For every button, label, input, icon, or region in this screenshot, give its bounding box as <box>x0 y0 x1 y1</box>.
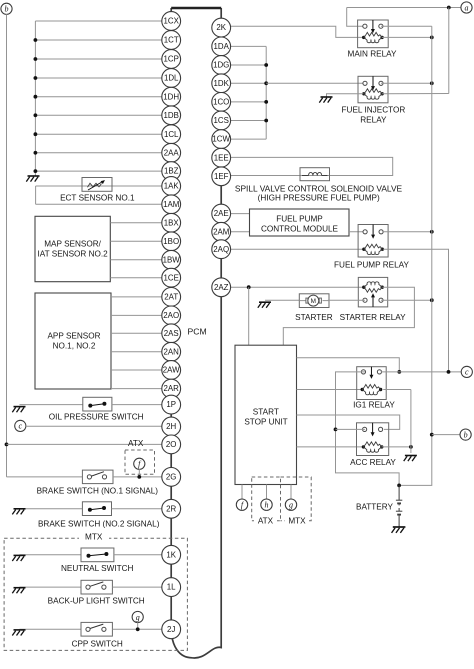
svg-text:1P: 1P <box>166 400 176 409</box>
junction dot battery positive <box>397 484 401 488</box>
wire ground to CPP switch <box>20 628 82 630</box>
svg-text:STARTER: STARTER <box>295 313 333 322</box>
main power bus vertical <box>399 26 432 485</box>
svg-text:1AM: 1AM <box>163 200 179 209</box>
svg-text:1CT: 1CT <box>164 36 179 45</box>
svg-text:g: g <box>289 501 293 510</box>
PCM pin 1EE <box>212 148 231 167</box>
wire APP sensor to pin 2AS <box>111 332 162 334</box>
junction dot ground bus / 1DL <box>34 76 38 80</box>
PCM pin 1CS <box>212 111 231 130</box>
svg-text:(HIGH PRESSURE FUEL PUMP): (HIGH PRESSURE FUEL PUMP) <box>258 194 380 203</box>
svg-text:APP SENSOR: APP SENSOR <box>47 331 100 340</box>
wire collector bus to fuel injector relay contact <box>266 82 365 84</box>
wire APP sensor to pin 2AW <box>111 369 162 371</box>
wire starter relay coil to start stop unit <box>283 287 414 345</box>
wire pin 2AA to ground bus <box>35 152 162 154</box>
wire pin 1DG to collector bus <box>230 64 266 66</box>
PCM pin 1DA <box>212 37 231 56</box>
MTX dashed box (unit) <box>281 477 312 521</box>
thermistor symbol (ECT sensor) <box>82 178 112 192</box>
svg-text:ATX: ATX <box>258 517 274 526</box>
svg-text:2AN: 2AN <box>164 347 180 356</box>
PCM pin 2AA <box>162 143 181 162</box>
svg-text:SPILL VALVE CONTROL SOLENOID V: SPILL VALVE CONTROL SOLENOID VALVE <box>235 183 403 193</box>
svg-text:2G: 2G <box>166 473 177 482</box>
svg-text:2H: 2H <box>166 422 176 431</box>
wire pin 1DK to collector bus <box>230 82 266 84</box>
wire start stop unit to c-junction <box>297 358 400 372</box>
junction dot ground bus / 1DH <box>34 95 38 99</box>
wire pin 1DH to ground bus <box>35 96 162 98</box>
svg-text:2AT: 2AT <box>164 293 178 302</box>
wire APP sensor to pin 2AR <box>111 388 162 390</box>
wire ECT sensor to pin 1AM <box>36 203 162 205</box>
PCM pin 1CL <box>162 125 181 144</box>
svg-text:2AW: 2AW <box>163 366 180 375</box>
svg-text:g: g <box>136 613 140 622</box>
svg-text:2R: 2R <box>166 504 176 513</box>
wire MAP/IAT sensor to pin 1BW <box>110 259 162 261</box>
wire fuel pump relay contact to bus <box>382 231 432 233</box>
relay K5 IG1 RELAY <box>357 367 387 400</box>
svg-text:FUEL INJECTOR: FUEL INJECTOR <box>342 105 406 114</box>
PCM pin 2O <box>162 435 181 454</box>
wire pin 1CT to ground bus <box>35 39 162 41</box>
wire b-line <box>432 434 460 436</box>
svg-text:b: b <box>5 5 9 14</box>
wire pin 1AK to ECT sensor <box>36 185 162 187</box>
oil pressure switch S1 (closed) <box>83 397 112 411</box>
ground bus (left) <box>34 21 36 176</box>
svg-text:1BX: 1BX <box>164 218 180 227</box>
svg-text:START: START <box>253 408 279 417</box>
svg-text:BRAKE SWITCH (NO.1 SIGNAL): BRAKE SWITCH (NO.1 SIGNAL) <box>37 487 159 496</box>
svg-text:1DB: 1DB <box>164 111 179 120</box>
junction dot ground bus / 1CP <box>34 57 38 61</box>
svg-text:MTX: MTX <box>288 517 306 526</box>
CPP switch (open) <box>81 622 112 636</box>
wire pin 1CS to collector bus <box>230 120 266 122</box>
PCM connector right vertical wall <box>192 8 221 658</box>
svg-text:2J: 2J <box>167 625 175 634</box>
wire oil pressure switch to pin 1P <box>112 404 162 406</box>
ground G3 (brake switch NO.2) <box>12 509 25 515</box>
ground G10 (battery) <box>392 527 406 533</box>
wire pin 2AE to fuel pump control module <box>230 213 249 215</box>
svg-text:1CW: 1CW <box>212 135 230 144</box>
PCM pin 1EF <box>212 167 231 186</box>
svg-text:BACK-UP LIGHT SWITCH: BACK-UP LIGHT SWITCH <box>48 596 145 605</box>
wire pin 2K to main relay coil <box>230 26 363 37</box>
PCM pin 1DK <box>212 74 231 93</box>
junction dot a-line <box>447 6 451 10</box>
ground G8 (starter) <box>258 302 271 308</box>
svg-text:OIL PRESSURE SWITCH: OIL PRESSURE SWITCH <box>49 412 144 421</box>
battery BAT1 <box>398 485 400 500</box>
svg-text:2AQ: 2AQ <box>213 245 229 254</box>
PCM pin 2J <box>162 620 181 639</box>
wire start stop unit to ACC relay coil <box>297 446 364 448</box>
PCM pin 1CW <box>212 130 231 149</box>
junction dot collector bus/1CS <box>264 119 268 123</box>
PCM pin 1CX <box>162 12 181 31</box>
svg-text:c: c <box>465 368 469 377</box>
wire ground to fuel injector relay coil <box>327 94 364 97</box>
svg-text:2AM: 2AM <box>213 227 229 236</box>
wire MAP/IAT sensor to pin 1CE <box>110 277 162 279</box>
PCM pin 2AZ <box>212 278 231 297</box>
svg-text:h: h <box>265 501 269 510</box>
wire fuel injector relay contact to bus <box>381 82 432 84</box>
PCM pin 2H <box>162 417 181 436</box>
junction dot battery-feed/ACC-contact <box>334 428 338 432</box>
PCM pin 2AE <box>212 204 231 223</box>
ground G9 (IG1/ACC relay coils) <box>404 456 417 462</box>
PCM pin 1P <box>162 395 181 414</box>
wire ground to starter <box>265 299 300 301</box>
wire APP sensor to pin 2AO <box>111 314 162 316</box>
PCM pin 2AT <box>162 288 181 307</box>
PCM pin 1K <box>162 545 181 564</box>
svg-text:2AE: 2AE <box>214 209 229 218</box>
PCM pin 1CE <box>162 268 181 287</box>
svg-text:1CX: 1CX <box>164 17 180 26</box>
wire pin 1CO to collector bus <box>230 101 266 103</box>
wire terminal-c to pin 2H <box>26 425 162 427</box>
svg-text:1BZ: 1BZ <box>164 167 179 176</box>
PCM connector left vertical wall <box>171 8 192 658</box>
label MTX patch <box>79 532 109 541</box>
relay K2 FUEL INJECTOR RELAY <box>358 76 388 103</box>
wire a-net vertical to fuel injector coil <box>448 8 450 94</box>
wire to terminal f (unit) <box>241 485 243 500</box>
wire back-up light switch to pin 1L <box>112 586 163 588</box>
wire APP sensor to pin 2AT <box>111 296 162 298</box>
PCM pin 1CP <box>162 50 181 69</box>
wire pin 1EE loop <box>230 157 392 175</box>
PCM pin 2AW <box>162 361 181 380</box>
PCM pin 1BZ <box>162 162 181 181</box>
junction dot bus/fuel-injector-contact <box>430 81 434 85</box>
wire pin 1CP to ground bus <box>35 58 162 60</box>
wire a-line down to main relay contact <box>347 8 365 27</box>
svg-text:ACC RELAY: ACC RELAY <box>350 458 396 467</box>
pin collector bus <box>265 46 267 139</box>
svg-text:MAP SENSOR/: MAP SENSOR/ <box>44 240 101 249</box>
svg-text:2AA: 2AA <box>164 148 180 157</box>
svg-text:1AK: 1AK <box>164 182 180 191</box>
PCM pin 1CO <box>212 93 231 112</box>
PCM pin 2AQ <box>212 240 231 259</box>
PCM pin 2AO <box>162 306 181 325</box>
PCM pin 1BW <box>162 250 181 269</box>
brake switch NO.2 (closed) <box>82 502 111 516</box>
ground G7 (fuel injector relay) <box>319 97 332 103</box>
START STOP UNIT box <box>235 345 297 484</box>
relay ground rail vertical <box>410 390 412 454</box>
wire IG1 coil to ground rail <box>383 389 411 391</box>
MTX dashed box <box>4 538 187 650</box>
svg-text:IAT SENSOR NO.2: IAT SENSOR NO.2 <box>37 250 108 259</box>
svg-text:1BW: 1BW <box>163 255 181 264</box>
terminal a (top-right) <box>461 2 472 13</box>
terminal c (right) <box>461 366 472 377</box>
junction dot f-tap <box>137 475 141 479</box>
wire fuel pump control module to fuel pump relay contact <box>349 231 366 233</box>
wire IG1 left contact to battery feed <box>336 372 400 486</box>
PCM pin 2AR <box>162 379 181 398</box>
wire ACC coil to ground rail <box>382 446 411 448</box>
svg-text:2AS: 2AS <box>164 329 179 338</box>
wire main relay coil to bus <box>382 36 432 38</box>
junction dot ground bus / 1BZ <box>34 169 38 173</box>
wire a-line horizontal <box>347 7 461 9</box>
wire pin 1DL to ground bus <box>35 77 162 79</box>
junction dot ground bus / 2AA <box>34 151 38 155</box>
svg-text:1CL: 1CL <box>164 130 179 139</box>
PCM pin 1DB <box>162 106 181 125</box>
wire ground to neutral switch <box>20 554 82 556</box>
ground G2 (oil pressure switch) <box>12 407 25 413</box>
MAP sensor / IAT sensor NO.2 box <box>35 216 110 281</box>
label ATX patch (unit) <box>254 516 277 525</box>
svg-text:2O: 2O <box>166 440 177 449</box>
wire pin 1DB to ground bus <box>35 114 162 116</box>
junction dot bus/main-relay-coil <box>430 36 434 40</box>
wire MAP/IAT sensor to pin 1BX <box>110 222 162 224</box>
back-up light switch (open) <box>81 580 112 594</box>
svg-text:1BO: 1BO <box>163 237 179 246</box>
svg-text:b: b <box>464 430 468 439</box>
wire terminal-g to 2J net <box>137 622 139 629</box>
relay K4 STARTER RELAY <box>358 277 387 307</box>
svg-text:IG1 RELAY: IG1 RELAY <box>353 401 395 410</box>
svg-text:1DK: 1DK <box>214 79 230 88</box>
wire pin 1BZ to ground bus <box>35 170 162 172</box>
svg-text:2AR: 2AR <box>164 384 180 393</box>
ground G4 (neutral switch) <box>12 555 25 561</box>
wire pin 1CL to ground bus <box>35 133 162 135</box>
PCM pin 2G <box>162 468 181 487</box>
junction dot ground-rail/ACC-coil <box>409 445 413 449</box>
ECT sensor left side <box>35 186 37 204</box>
PCM pin 1DL <box>162 69 181 88</box>
wire ground to oil pressure switch <box>20 404 83 406</box>
ground G6 (CPP switch) <box>12 630 25 636</box>
wire pin 1DA to collector bus <box>230 45 266 47</box>
ground G1 (sensor ground bus) <box>26 176 39 182</box>
wire start stop unit to IG1 relay coil <box>297 389 364 391</box>
terminal f (start stop unit) <box>236 499 247 510</box>
svg-text:1EF: 1EF <box>214 172 229 181</box>
junction dot b-wire / pin 2O tap <box>5 443 9 447</box>
svg-text:1DH: 1DH <box>163 92 179 101</box>
svg-text:STOP UNIT: STOP UNIT <box>244 418 287 427</box>
junction dot bus/starter-relay-contact <box>430 298 434 302</box>
junction dot collector bus/1CO <box>264 100 268 104</box>
wire b-line to brake switch NO.1 <box>7 476 83 478</box>
neutral switch (closed) <box>81 548 114 562</box>
wire pin 2AQ to fuel pump relay coil <box>230 248 363 250</box>
svg-text:STARTER RELAY: STARTER RELAY <box>340 313 407 322</box>
PCM pin 2R <box>162 499 181 518</box>
wire to terminal g (unit) <box>290 485 292 500</box>
wire CPP switch to pin 2J <box>112 628 162 630</box>
wire terminal-b vertical <box>6 14 8 477</box>
junction dot collector bus/1DG <box>264 63 268 67</box>
junction dot bus/b-line <box>430 433 434 437</box>
wire start stop unit to ACC relay contact <box>297 415 400 429</box>
brake switch NO.1 (open) <box>82 470 113 484</box>
terminal g (start stop unit) <box>285 499 296 510</box>
terminal b (right) <box>460 429 471 440</box>
svg-text:RELAY: RELAY <box>360 115 387 124</box>
svg-text:1CO: 1CO <box>213 98 229 107</box>
svg-text:ECT SENSOR NO.1: ECT SENSOR NO.1 <box>60 193 135 202</box>
PCM pin 1L <box>162 578 181 597</box>
wire 2AZ tap down to start stop unit <box>248 287 250 345</box>
starter motor M1 <box>299 294 329 308</box>
wire battery feed to ACC left contact <box>336 428 365 430</box>
fuel pump control module box <box>250 209 350 236</box>
ground G5 (back-up light switch) <box>12 588 25 594</box>
PCM pin 1DH <box>162 87 181 106</box>
svg-text:1EE: 1EE <box>214 153 229 162</box>
wire ground to back-up light switch <box>20 586 82 588</box>
wire APP sensor to pin 2AN <box>111 351 162 353</box>
junction dot collector bus/1DK <box>264 81 268 85</box>
wire pin 2O to b-line <box>7 443 163 445</box>
svg-text:NO.1, NO.2: NO.1, NO.2 <box>53 341 96 350</box>
wire pin 1CX to ground bus <box>35 20 162 22</box>
wire brake switch NO.2 to pin 2R <box>112 508 163 510</box>
svg-text:1DL: 1DL <box>164 74 179 83</box>
terminal h (start stop unit) <box>261 499 272 510</box>
svg-text:CONTROL MODULE: CONTROL MODULE <box>261 224 339 233</box>
terminal b (top-left) <box>1 3 12 14</box>
svg-text:1DG: 1DG <box>213 61 229 70</box>
svg-text:FUEL PUMP: FUEL PUMP <box>276 214 323 223</box>
wire starter relay contact to bus <box>381 299 432 301</box>
svg-text:BRAKE SWITCH (NO.2 SIGNAL): BRAKE SWITCH (NO.2 SIGNAL) <box>38 520 160 529</box>
wire to terminal h (unit) <box>266 485 268 500</box>
PCM pin 1BX <box>162 213 181 232</box>
wire pin 2AZ to starter relay coil <box>230 286 363 288</box>
svg-text:PCM: PCM <box>188 326 207 336</box>
wire brake switch NO.1 to pin 2G <box>113 476 162 478</box>
junction dot ground bus / 1CT <box>34 38 38 42</box>
svg-text:BATTERY: BATTERY <box>356 503 394 512</box>
svg-text:M: M <box>311 298 316 305</box>
PCM pin 2AM <box>212 222 231 241</box>
relay K3 FUEL PUMP RELAY <box>358 225 388 258</box>
svg-text:1L: 1L <box>167 583 176 592</box>
wire ground to brake switch NO.2 <box>20 508 83 510</box>
wire IG1 contact to c terminal <box>381 371 462 373</box>
svg-text:c: c <box>19 422 23 431</box>
APP sensor NO.1, NO.2 box <box>35 293 111 389</box>
svg-text:1CS: 1CS <box>214 116 229 125</box>
PCM pin 1AK <box>162 177 181 196</box>
svg-text:NEUTRAL SWITCH: NEUTRAL SWITCH <box>61 564 134 573</box>
svg-text:2AZ: 2AZ <box>214 283 229 292</box>
junction dot g-tap <box>136 627 140 631</box>
relay K1 MAIN RELAY <box>358 20 389 48</box>
svg-text:MTX: MTX <box>85 533 103 542</box>
svg-text:ATX: ATX <box>128 439 144 448</box>
spill valve control solenoid valve symbol <box>300 168 330 181</box>
svg-text:1DA: 1DA <box>214 42 230 51</box>
wire terminal-f to 2G net <box>138 469 140 477</box>
junction dot c-line/start-stop <box>397 370 401 374</box>
terminal g (above CPP wire) <box>132 611 143 622</box>
wire starter to starter relay contact <box>328 299 365 301</box>
PCM pin 2K <box>212 18 231 37</box>
svg-text:MAIN RELAY: MAIN RELAY <box>348 49 398 58</box>
svg-text:1K: 1K <box>166 550 176 559</box>
junction dot bus/fuel-pump-contact <box>430 230 434 234</box>
PCM pin 1DG <box>212 56 231 75</box>
svg-text:a: a <box>465 3 469 12</box>
ATX dashed box (f terminal) <box>125 450 155 474</box>
junction dot ground bus / 1CL <box>34 132 38 136</box>
wire MAP/IAT sensor to pin 1BO <box>110 240 162 242</box>
junction dot c-line/fuel-pump-coil-net <box>447 370 451 374</box>
wire fuel injector relay coil to a-net <box>382 93 449 95</box>
PCM pin 1BO <box>162 232 181 251</box>
svg-text:1CP: 1CP <box>164 55 179 64</box>
wire main relay contact to bus <box>381 25 432 27</box>
PCM pin 2AS <box>162 324 181 343</box>
svg-text:FUEL PUMP RELAY: FUEL PUMP RELAY <box>334 260 409 269</box>
terminal c (left) <box>15 420 26 431</box>
svg-text:CPP SWITCH: CPP SWITCH <box>72 639 123 648</box>
wire pin 2AM to fuel pump control module <box>230 231 249 233</box>
wire pin 1CW to collector bus <box>230 138 266 140</box>
PCM pin 1AM <box>162 195 181 214</box>
terminal f (ATX) <box>134 458 145 469</box>
PCM pin 1CT <box>162 31 181 50</box>
relay K6 ACC RELAY <box>357 423 389 456</box>
svg-text:2K: 2K <box>216 23 226 32</box>
junction dot ground bus / 1DB <box>34 113 38 117</box>
wire fuel pump relay coil to c-net <box>383 249 448 372</box>
ATX dashed box (unit) <box>252 477 281 521</box>
label MTX patch (unit) <box>285 516 309 525</box>
wire neutral switch to pin 1K <box>114 554 163 556</box>
PCM connector top edge <box>171 7 221 9</box>
junction dot 2AZ/start-stop-unit <box>247 285 251 289</box>
svg-text:1CE: 1CE <box>164 273 179 282</box>
PCM pin 2AN <box>162 342 181 361</box>
svg-text:2AO: 2AO <box>163 311 179 320</box>
